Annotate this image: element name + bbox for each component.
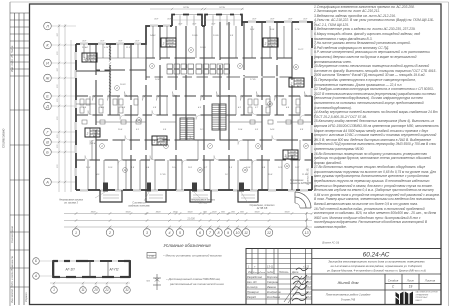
- entrance ramp detail bottom right: [295, 192, 311, 228]
- svg-text:16.20: 16.20: [120, 84, 126, 86]
- door swing arcs: [85, 92, 309, 165]
- svg-text:Кондратов: Кондратов: [267, 290, 281, 294]
- svg-text:АГ-1П: АГ-1П: [64, 268, 75, 272]
- svg-text:ОКН: ОКН: [252, 19, 257, 21]
- left axis circles with letters: [44, 22, 52, 30]
- svg-text:Смирнов: Смирнов: [267, 280, 278, 284]
- windows in bays top y14.5: [175, 13, 183, 16]
- svg-text:Система со: Система со: [132, 203, 146, 205]
- svg-text:Формат: Формат: [25, 292, 28, 302]
- svg-text:ОКПН: ОКПН: [183, 7, 190, 9]
- svg-text:Ограждение, отметки: Ограждение, отметки: [250, 204, 276, 207]
- svg-text:3600: 3600: [91, 211, 97, 213]
- svg-text:42 ПВ 3/В: 42 ПВ 3/В: [257, 207, 268, 210]
- svg-text:31: 31: [125, 288, 129, 292]
- detail dimension line: [50, 282, 130, 284]
- corridor walls: [76, 58, 312, 160]
- svg-text:2: 2: [284, 154, 287, 158]
- svg-text:03.23: 03.23: [306, 286, 313, 289]
- svg-text:Колобанов: Колобанов: [267, 295, 281, 299]
- svg-text:ОКН: ОКН: [154, 19, 159, 21]
- bottom axis circles: [72, 229, 80, 237]
- legend item washing machine symbol: [147, 253, 156, 259]
- svg-text:РАБОТ: РАБОТ: [416, 299, 423, 302]
- svg-text:12.86: 12.86: [155, 79, 161, 81]
- svg-text:1500: 1500: [173, 211, 179, 213]
- svg-text:16.48: 16.48: [159, 140, 165, 143]
- svg-text:на 1-м этаже в островном жилом: на 1-м этаже в островном жилом районе, о…: [331, 264, 423, 268]
- windows in left wall x76: [74, 52, 77, 60]
- legend item valve symbol: [153, 274, 161, 290]
- leader labels below plan: [95, 192, 248, 203]
- title block left grid: [246, 249, 312, 305]
- svg-text:50.38: 50.38: [168, 40, 174, 42]
- svg-text:21.000: 21.000: [186, 217, 195, 220]
- svg-text:2: 2: [264, 42, 267, 46]
- svg-text:Б: Б: [35, 259, 37, 263]
- svg-text:21.48: 21.48: [90, 142, 97, 145]
- svg-text:свайными колесами: свайными колесами: [128, 205, 150, 208]
- svg-text:14.52: 14.52: [150, 34, 156, 37]
- detail axis circles: [33, 258, 40, 265]
- svg-text:11: 11: [81, 288, 85, 292]
- dimension ticks bottom: [75, 212, 314, 228]
- windows in top wall y22: [248, 20, 256, 23]
- windows in bottom wall y190: [80, 188, 88, 191]
- svg-text:03.23: 03.23: [306, 296, 313, 299]
- svg-text:ОКН: ОКН: [303, 19, 308, 21]
- svg-text:ОКПН: ОКПН: [219, 7, 226, 9]
- svg-text:19: 19: [409, 285, 413, 289]
- upper band partitions: [84, 26, 284, 58]
- svg-text:3600: 3600: [156, 211, 162, 213]
- svg-text:17.35: 17.35: [250, 79, 256, 81]
- svg-text:АГ-П2: АГ-П2: [108, 268, 118, 272]
- svg-text:12: 12: [267, 231, 271, 235]
- svg-text:50.38: 50.38: [89, 55, 95, 57]
- svg-text:50.38: 50.38: [159, 138, 165, 140]
- svg-text:+3.23: +3.23: [303, 266, 310, 269]
- building outer walls: [76, 15, 312, 191]
- svg-text:Ж: Ж: [45, 76, 50, 80]
- svg-text:11: 11: [244, 231, 248, 235]
- windows in top wall y44: [80, 42, 88, 45]
- svg-text:Инв.№подл. Подп. и дата Взам: Инв.№подл. Подп. и дата Взам.инв.№: [10, 256, 14, 303]
- interior unit separation walls: [96, 22, 292, 190]
- svg-text:ОКН: ОКН: [118, 41, 123, 43]
- svg-text:УПРАВЛЕНИЕ: УПРАВЛЕНИЕ: [416, 293, 429, 296]
- svg-text:Н.контр.: Н.контр.: [247, 285, 258, 289]
- door gaps in corridor walls: [85, 57, 305, 161]
- svg-text:2: 2: [108, 231, 111, 235]
- door gaps in unit walls: [95, 60, 293, 155]
- svg-text:Ограждение: Ограждение: [290, 179, 304, 182]
- svg-text:В: В: [46, 140, 49, 144]
- svg-text:ПРОЕКТНЫХ: ПРОЕКТНЫХ: [416, 297, 429, 299]
- svg-text:15.71: 15.71: [298, 49, 304, 51]
- svg-text:1: 1: [53, 288, 55, 292]
- windows in top wall y26: [150, 24, 158, 27]
- svg-text:А: А: [45, 180, 49, 184]
- svg-text:Согласовано: Согласовано: [10, 225, 14, 243]
- title block frame: [246, 249, 441, 305]
- svg-text:Лист: Лист: [259, 272, 266, 274]
- svg-text:Условные обозначения: Условные обозначения: [163, 243, 211, 248]
- svg-text:– Место установки стиральной: – Место установки стиральной машины: [162, 254, 223, 258]
- svg-text:5000: 5000: [285, 211, 291, 213]
- svg-text:Листов: Листов: [424, 279, 436, 283]
- svg-text:3: 3: [146, 231, 148, 235]
- entrance porches bottom: [100, 190, 258, 202]
- svg-text:Инв. подл. 25. Чита: Инв. подл. 25. Чита: [10, 45, 14, 72]
- svg-text:9: 9: [227, 231, 229, 235]
- svg-text:2: 2: [153, 140, 156, 144]
- svg-text:Нач. АО: Нач. АО: [247, 280, 257, 284]
- svg-text:50.38: 50.38: [296, 80, 302, 82]
- windows in right wall x312: [310, 30, 313, 38]
- svg-text:5000: 5000: [188, 211, 194, 213]
- svg-text:18.09: 18.09: [200, 47, 206, 49]
- svg-text:см. пример 3: см. пример 3: [64, 203, 79, 205]
- svg-text:12.44: 12.44: [82, 46, 88, 49]
- svg-text:1: 1: [75, 231, 77, 235]
- svg-text:Жилой дом: Жилой дом: [337, 280, 359, 285]
- hatched insulated wall x110: [109, 44, 111, 94]
- svg-text:13: 13: [305, 231, 309, 235]
- svg-text:– Дистанционный клапан 500х50: – Дистанционный клапан 500х500 мм,: [165, 277, 221, 281]
- svg-text:5000: 5000: [255, 211, 261, 213]
- svg-text:ОКН: ОКН: [82, 41, 87, 43]
- svg-text:Лист: Лист: [406, 279, 415, 283]
- svg-text:Проверил: Проверил: [247, 290, 259, 294]
- lower band partitions: [88, 140, 300, 190]
- bay loggia dividers: [172, 15, 242, 25]
- svg-text:50.38: 50.38: [92, 130, 98, 132]
- svg-text:16.48: 16.48: [168, 42, 174, 45]
- svg-text:60.24-АС: 60.24-АС: [363, 252, 390, 259]
- svg-text:17.35: 17.35: [160, 174, 166, 176]
- left vertical dimension chain: [58, 24, 60, 192]
- svg-text:ОКН: ОКН: [226, 24, 231, 26]
- svg-text:50.38: 50.38: [290, 152, 296, 154]
- apartment info boxes: [85, 128, 100, 137]
- svg-text:2: 2: [83, 57, 86, 61]
- left margin stamp tables: [10, 13, 30, 305]
- svg-text:16.48: 16.48: [92, 132, 98, 135]
- bathroom fixtures right section: [248, 99, 303, 124]
- svg-text:13.05: 13.05: [192, 35, 198, 37]
- svg-text:ОКН: ОКН: [178, 24, 183, 26]
- svg-text:(Анализ АС-18): (Анализ АС-18): [307, 168, 310, 185]
- svg-text:50.38: 50.38: [270, 40, 276, 42]
- svg-text:Дата: Дата: [291, 271, 299, 274]
- svg-text:16.48: 16.48: [296, 82, 302, 85]
- svg-text:Подпись: Подпись: [279, 271, 289, 274]
- svg-text:А: А: [34, 274, 37, 278]
- svg-text:ОКН: ОКН: [211, 24, 216, 26]
- svg-text:Д: Д: [45, 104, 49, 108]
- svg-text:5-осям Л-В: 5-осям Л-В: [341, 298, 355, 302]
- svg-text:Стадия: Стадия: [388, 279, 399, 283]
- svg-text:Иванов: Иванов: [267, 285, 276, 289]
- svg-text:Л: Л: [45, 24, 49, 28]
- svg-text:13.05: 13.05: [213, 35, 219, 37]
- svg-text:ОАО БРАТСКГЭССТРОЙ: ОАО БРАТСКГЭССТРОЙ: [416, 291, 439, 294]
- detail wall hatch segments: [52, 260, 131, 278]
- bottom dimension chains: [64, 213, 312, 215]
- svg-text:ОКН: ОКН: [167, 19, 172, 21]
- detail plan fragment walls: [53, 261, 130, 277]
- svg-text:Морозов: Морозов: [267, 275, 278, 279]
- svg-text:ОКН: ОКН: [192, 24, 197, 26]
- svg-text:Непрерывная заливка: Непрерывная заливка: [59, 200, 83, 202]
- svg-text:Согласовано: Согласовано: [2, 128, 6, 148]
- svg-text:расположенный на технической н: расположенный на технической нише: [169, 282, 224, 286]
- svg-text:16.48: 16.48: [290, 154, 296, 157]
- svg-text:ул. Барска-Маслова, 4-м проезд: ул. Барска-Маслова, 4-м проездом и Боков…: [326, 268, 426, 272]
- detail windows: [58, 260, 64, 262]
- svg-text:20: 20: [93, 288, 98, 292]
- signatures scrawl: [284, 268, 308, 303]
- sheet outer edge: [9, 2, 11, 306]
- svg-text:6: 6: [199, 231, 201, 235]
- right vertical dimension chain: [314, 22, 316, 190]
- mid band small partitions: [76, 96, 312, 122]
- svg-text:Разраб.: Разраб.: [247, 295, 257, 299]
- svg-text:03.23: 03.23: [306, 276, 313, 279]
- svg-text:ОКН: ОКН: [288, 19, 293, 21]
- svg-text:5000: 5000: [126, 211, 132, 213]
- svg-text:2: 2: [162, 42, 165, 46]
- svg-text:И: И: [46, 61, 49, 65]
- svg-text:Застройка многоквартирного жил: Застройка многоквартирного жилого дома с…: [328, 260, 425, 264]
- svg-text:ОКН: ОКН: [100, 41, 105, 43]
- svg-text:Непрерывные детали: Непрерывные детали: [191, 199, 216, 202]
- svg-text:1200: 1200: [212, 211, 218, 213]
- svg-text:13-11: 13-11: [267, 265, 274, 269]
- top dimension chain above bays: [150, 8, 244, 10]
- porch steps: [103, 195, 255, 198]
- svg-text:10: 10: [236, 231, 240, 235]
- svg-text:4: 4: [169, 231, 171, 235]
- svg-text:ОКН: ОКН: [135, 41, 140, 43]
- svg-text:№док: №док: [267, 271, 274, 274]
- logo mark: [396, 292, 414, 305]
- svg-text:ОКН: ОКН: [270, 19, 275, 21]
- room number circles and area labels: [100, 144, 105, 149]
- svg-text:21: 21: [104, 288, 109, 292]
- stairwell B treads: [212, 104, 226, 130]
- bathroom fixture cluster left: [80, 99, 141, 124]
- svg-text:Е: Е: [46, 94, 49, 98]
- svg-text:Разработал: Разработал: [247, 275, 263, 279]
- svg-text:8: 8: [218, 231, 220, 235]
- stairwell A treads: [180, 118, 194, 140]
- svg-text:см. ЛВЗ: см. ЛВЗ: [199, 203, 208, 205]
- svg-text:5: 5: [179, 231, 181, 235]
- kitchen counters middle band: [167, 64, 230, 74]
- svg-text:2: 2: [290, 82, 293, 86]
- svg-text:2: 2: [86, 132, 89, 136]
- svg-text:План монтажных работ 1 раздел: План монтажных работ 1 раздел: [326, 293, 371, 297]
- hatched wall piers at bottom wall: [103, 183, 244, 192]
- svg-text:16.48: 16.48: [270, 42, 276, 45]
